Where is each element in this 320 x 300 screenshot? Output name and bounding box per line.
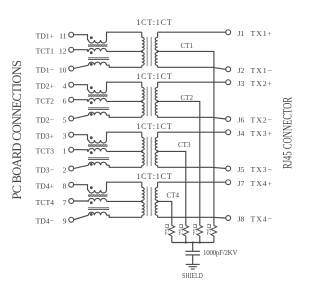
- svg-text:TD3+: TD3+: [36, 132, 54, 141]
- svg-text:7: 7: [63, 198, 67, 207]
- svg-text:J5: J5: [238, 165, 245, 174]
- svg-text:J3: J3: [238, 79, 245, 88]
- svg-text:1CT:1CT: 1CT:1CT: [136, 172, 172, 181]
- svg-text:3: 3: [63, 132, 67, 141]
- svg-text:TCT3: TCT3: [36, 147, 55, 156]
- svg-text:TD4+: TD4+: [36, 182, 54, 191]
- svg-text:TX4+: TX4+: [251, 179, 273, 188]
- svg-text:CT1: CT1: [181, 42, 194, 50]
- svg-text:RJ45 CONNECTOR: RJ45 CONNECTOR: [279, 97, 294, 169]
- svg-text:TCT2: TCT2: [36, 97, 55, 106]
- svg-text:8: 8: [63, 182, 67, 191]
- svg-text:5: 5: [63, 115, 67, 124]
- svg-text:75Ω: 75Ω: [192, 224, 199, 236]
- svg-text:TD2−: TD2−: [36, 115, 54, 124]
- svg-text:TX1−: TX1−: [251, 66, 273, 75]
- svg-text:CT2: CT2: [181, 94, 194, 102]
- svg-text:TX3+: TX3+: [251, 129, 273, 138]
- svg-text:9: 9: [63, 217, 67, 226]
- svg-text:10: 10: [59, 65, 67, 74]
- svg-text:TX1+: TX1+: [251, 29, 273, 38]
- svg-text:TD3−: TD3−: [36, 165, 54, 174]
- svg-text:1: 1: [63, 147, 67, 156]
- svg-text:TX2−: TX2−: [251, 116, 273, 125]
- svg-text:4: 4: [63, 82, 67, 91]
- svg-text:J2: J2: [238, 66, 245, 75]
- svg-text:J7: J7: [238, 179, 245, 188]
- svg-text:TX3−: TX3−: [251, 165, 273, 174]
- svg-text:12: 12: [59, 47, 67, 56]
- svg-text:1CT:1CT: 1CT:1CT: [136, 72, 172, 81]
- svg-text:TCT4: TCT4: [36, 198, 55, 207]
- svg-text:2: 2: [63, 165, 67, 174]
- svg-text:11: 11: [59, 32, 67, 41]
- svg-text:PC BOARD CONNECTIONS: PC BOARD CONNECTIONS: [10, 60, 24, 200]
- svg-text:TX2+: TX2+: [251, 79, 273, 88]
- svg-text:75Ω: 75Ω: [206, 224, 213, 236]
- svg-text:J8: J8: [238, 215, 245, 224]
- svg-text:TD1+: TD1+: [36, 32, 54, 41]
- svg-text:1CT:1CT: 1CT:1CT: [136, 122, 172, 131]
- svg-text:CT4: CT4: [167, 192, 180, 200]
- svg-text:TD1−: TD1−: [36, 65, 54, 74]
- svg-text:1CT:1CT: 1CT:1CT: [136, 18, 172, 27]
- svg-text:75Ω: 75Ω: [178, 224, 185, 236]
- svg-text:CT3: CT3: [178, 141, 191, 149]
- svg-text:6: 6: [63, 97, 67, 106]
- svg-text:J4: J4: [238, 129, 245, 138]
- svg-text:1000pF/2KV: 1000pF/2KV: [203, 249, 238, 257]
- svg-text:TD2+: TD2+: [36, 82, 54, 91]
- svg-text:TCT1: TCT1: [36, 47, 55, 56]
- svg-text:J1: J1: [238, 29, 245, 38]
- svg-text:75Ω: 75Ω: [164, 224, 171, 236]
- svg-text:TD4−: TD4−: [36, 217, 54, 226]
- svg-text:SHIELD: SHIELD: [182, 272, 203, 280]
- svg-text:J6: J6: [238, 116, 245, 125]
- svg-text:TX4−: TX4−: [251, 215, 273, 224]
